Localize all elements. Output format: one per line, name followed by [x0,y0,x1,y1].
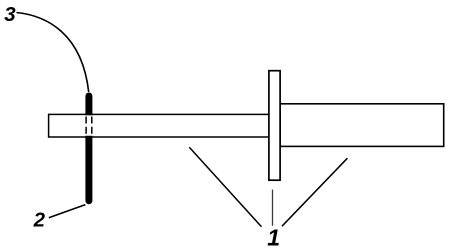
flange (vertical plate, part 1) [269,71,280,181]
svg-text:2: 2 [33,208,46,231]
handle (right body, part 1) [280,104,444,147]
hidden dashed line right (pin inside bar) [91,117,93,136]
pin upper segment (part 2) [85,93,92,116]
svg-text:3: 3 [4,3,16,26]
leader line from label 2 to pin bottom [49,205,86,218]
leader curve from label 3 to pin top [17,13,89,93]
leader line right (label 1 to handle) [282,158,347,226]
bar (long thin shaft, part 1) [49,114,270,137]
leader line middle (label 1 to flange) [272,190,274,226]
pin lower segment (part 2) [85,136,92,205]
svg-text:1: 1 [267,225,280,249]
hidden dashed line left (pin inside bar) [85,117,87,136]
leader line left (label 1 to bar) [189,147,261,227]
